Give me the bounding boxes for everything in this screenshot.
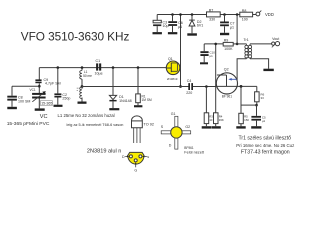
svg-text:G: G (134, 168, 137, 172)
svg-text:6V1: 6V1 (197, 24, 203, 28)
capacitor C9 (35, 78, 60, 86)
svg-text:G1: G1 (171, 112, 176, 116)
capacitor C5 (251, 116, 266, 124)
wire C3 to ground (156, 26, 158, 32)
wire C8 branch (12, 86, 39, 96)
svg-text:33: 33 (261, 96, 265, 100)
wire R4 to ground (215, 124, 217, 127)
connector VDD (256, 11, 274, 17)
svg-text:10µ: 10µ (163, 24, 169, 28)
resistor R4 (214, 113, 224, 124)
svg-text:Felül nézett: Felül nézett (184, 150, 205, 154)
pinout 2N3819 bottom view (122, 152, 149, 172)
wire R9 to rail node (233, 43, 237, 45)
svg-text:C4: C4 (187, 79, 192, 83)
svg-text:leig az 5-ik menetnél T68-6 va: leig az 5-ik menetnél T68-6 vason (67, 123, 124, 127)
wire primary top (237, 43, 246, 45)
ground under C2 (54, 105, 63, 107)
capacitor C3 (153, 20, 168, 28)
capacitor C7 (220, 22, 234, 30)
inductor L1 lower winding (77, 87, 82, 99)
resistor R8 (240, 9, 253, 22)
svg-text:330: 330 (209, 18, 215, 22)
wire primary bottom to Q2 drain (237, 59, 246, 80)
resistor R7 (207, 8, 221, 21)
svg-text:FT37-43 ferrit magon: FT37-43 ferrit magon (241, 149, 290, 155)
node R3 junction (205, 85, 208, 88)
resistor R1 (136, 94, 152, 103)
ground under VC1 (35, 108, 45, 110)
ground under Tr1 secondary (263, 69, 273, 71)
svg-text:R9: R9 (224, 38, 229, 42)
wire D2 stem (191, 15, 193, 21)
svg-text:BF961: BF961 (184, 146, 194, 150)
wire D2 to ground (191, 26, 193, 33)
wire L1 mid (81, 79, 83, 86)
wire C5 stem (256, 105, 258, 116)
node R1 junction (137, 66, 140, 69)
wire supply rail (157, 14, 240, 16)
svg-text:Q2: Q2 (224, 68, 229, 72)
svg-text:µ1: µ1 (262, 119, 266, 123)
capacitor C6 (168, 21, 182, 29)
node C5 junction (255, 104, 258, 107)
svg-text:220: 220 (186, 91, 192, 95)
wire C9 stem (38, 68, 40, 80)
node primary top junction (236, 43, 239, 46)
svg-text:s: s (147, 155, 149, 159)
wire C10 stem (203, 44, 205, 51)
svg-text:250p: 250p (62, 97, 70, 101)
wire secondary top to Vout (250, 43, 272, 45)
connector Vout (272, 37, 280, 48)
wire R1 to ground (137, 103, 139, 106)
svg-text:Tr1 széles sávú illesztő: Tr1 széles sávú illesztő (239, 136, 292, 142)
svg-text:VFO 3510-3630 KHz: VFO 3510-3630 KHz (21, 29, 130, 43)
wire R3 to ground (205, 124, 207, 127)
node G2 junction (214, 43, 217, 46)
wire C9 to VC1 node (38, 83, 40, 93)
wire R3 stem (205, 87, 207, 113)
node VC1 top junction (38, 85, 41, 88)
wire rail corner to C3 (156, 15, 158, 21)
wire rail to Tr1 primary top (236, 15, 238, 44)
wire VC1 to ground (38, 99, 40, 109)
wire C5 node to source line (241, 104, 257, 106)
ground under R3 (202, 126, 211, 128)
svg-text:10: 10 (209, 118, 213, 122)
svg-text:2N3819: 2N3819 (167, 77, 178, 81)
svg-text:100 SM: 100 SM (18, 100, 30, 104)
svg-text:µ1: µ1 (178, 25, 182, 29)
wire C2 to ground (57, 98, 59, 105)
wire D1 stem (112, 68, 114, 96)
svg-text:Vout: Vout (272, 37, 279, 41)
wire G2 line (215, 44, 217, 113)
wire C5 to ground (256, 121, 258, 127)
capacitor C4 (186, 79, 193, 95)
resistor R5 (239, 113, 250, 123)
svg-text:100: 100 (242, 18, 248, 22)
value label 15-365 (40, 101, 52, 106)
node source junction (240, 85, 243, 88)
wire C10 to ground (203, 56, 205, 62)
svg-text:VC: VC (40, 114, 48, 120)
svg-text:2N3819 alul n: 2N3819 alul n (87, 149, 122, 155)
zener diode D2 (189, 20, 203, 28)
wire R1 stem (137, 68, 139, 94)
resistor R9 (223, 38, 233, 51)
node C7 junction (223, 13, 226, 16)
transformer Tr1 (244, 38, 252, 59)
wire C2 stem (57, 68, 59, 94)
node D1 junction (112, 66, 115, 69)
svg-text:D: D (169, 144, 172, 148)
ground under R5 (236, 126, 245, 128)
wire source corner to R6 (256, 86, 258, 91)
transistor Q2 (216, 68, 237, 99)
ground under C6 (168, 32, 177, 34)
wire C4 to Q2 gate1 (193, 86, 216, 88)
ground under C8 (7, 107, 17, 109)
ground under D2 (187, 33, 197, 35)
svg-text:10µe: 10µe (95, 71, 103, 75)
svg-text:µ1: µ1 (230, 25, 234, 29)
node L1 top junction (81, 66, 84, 69)
svg-text:1N4148: 1N4148 (119, 99, 132, 103)
wire D1 to ground (112, 101, 114, 108)
wire L1 to ground (81, 98, 83, 102)
node D2 junction (191, 13, 194, 16)
wire R9 branch (204, 43, 223, 45)
wire C6 to ground (172, 26, 174, 32)
wire C7 stem (224, 15, 226, 22)
diode D1 (109, 95, 131, 103)
wire source to R5 (240, 86, 242, 113)
ground under R4 (211, 126, 220, 128)
svg-text:VDD: VDD (265, 12, 274, 17)
svg-text:33K: 33K (219, 118, 224, 122)
wire tap line (82, 86, 189, 88)
wire Q2 source line (237, 85, 257, 87)
resistor R3 (204, 113, 213, 124)
node L1 tap (81, 85, 84, 88)
wire gate top rail (39, 67, 166, 69)
ground under D1 (109, 108, 119, 110)
svg-text:BF 961: BF 961 (222, 95, 233, 99)
wire C6 stem (172, 15, 174, 22)
svg-text:L1 25me No 32 zománs huzal: L1 25me No 32 zománs huzal (58, 113, 115, 118)
svg-text:Tr1: Tr1 (244, 38, 249, 42)
capacitor C1 (95, 59, 103, 75)
capacitor C2 (54, 93, 70, 101)
resistor R6 (255, 92, 265, 102)
svg-text:15-365 pFMini PVC: 15-365 pFMini PVC (7, 121, 50, 127)
wire secondary bottom to ground (250, 59, 269, 69)
package drawing TO 92 (132, 116, 154, 143)
node Q1 drain rail junction (179, 13, 182, 16)
svg-text:Pri 16me sec 4me. No 26 Cuz: Pri 16me sec 4me. No 26 Cuz (236, 143, 294, 148)
inductor L1 upper winding (80, 68, 92, 79)
node Tr1 feed junction (236, 13, 239, 16)
svg-text:VC1: VC1 (30, 88, 36, 92)
ground under C7 (220, 33, 229, 35)
capacitor C10 (200, 51, 215, 58)
ground under C5 (251, 126, 261, 128)
wire C7 to ground (224, 26, 226, 33)
svg-text:150: 150 (244, 118, 249, 122)
svg-text:S: S (161, 125, 164, 129)
package BF961 top view (161, 112, 205, 154)
wire R6 to C5 node (256, 102, 258, 105)
node C2 junction (57, 66, 60, 69)
ground under C3 (153, 32, 162, 34)
capacitor C8 (7, 96, 30, 104)
svg-text:D: D (122, 155, 125, 159)
svg-text:TO 92: TO 92 (144, 123, 154, 127)
svg-text:50 me: 50 me (83, 74, 92, 78)
svg-text:G2: G2 (185, 125, 190, 129)
wire C8 to ground (11, 101, 13, 107)
svg-text:15-365: 15-365 (41, 102, 52, 106)
node C6 junction (171, 13, 174, 16)
node Q1 source junction (179, 85, 182, 88)
svg-text:100K: 100K (224, 47, 233, 51)
wire R5 to ground (240, 124, 242, 127)
ground under C10 (200, 62, 208, 64)
variable capacitor VC1 (30, 88, 46, 102)
ground under L1 (78, 102, 87, 104)
svg-text:C1: C1 (96, 59, 101, 63)
transistor Q1 (166, 57, 180, 81)
wire R8 to VDD (253, 14, 256, 16)
svg-text:1M SM: 1M SM (142, 98, 152, 102)
svg-text:µ1: µ1 (210, 54, 214, 58)
wire Q1 drain to rail and source down (180, 15, 182, 87)
svg-text:Q1: Q1 (168, 57, 173, 61)
ground under R1 (134, 105, 142, 107)
